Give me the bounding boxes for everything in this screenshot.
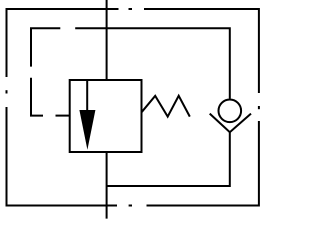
- enclosure border right dot: [258, 106, 260, 109]
- enclosure border top-left run (chain line): [7, 9, 119, 77]
- enclosure border bottom dot: [129, 205, 132, 207]
- enclosure border left dot: [6, 90, 8, 93]
- enclosure border bottom-right run: [147, 121, 259, 206]
- enclosure border top-right run: [144, 9, 259, 93]
- wire: main line bottom (valve to port 2): [106, 152, 108, 219]
- wire: check valve return line to main line: [107, 131, 230, 186]
- pilot line dash: top corner segment: [31, 28, 60, 66]
- valve V1 envelope: [70, 80, 142, 152]
- wire: main line top (port 1 to valve): [106, 0, 108, 80]
- enclosure border top dot: [129, 8, 133, 10]
- pilot line dash: into valve envelope: [56, 115, 70, 117]
- check valve CV1 seat (V): [210, 114, 251, 133]
- valve V1 poppet (filled triangle): [79, 110, 95, 150]
- valve V1 seat stem line: [86, 80, 88, 110]
- valve V1 spring: [142, 96, 190, 117]
- check valve CV1 ball (circle): [219, 100, 242, 123]
- enclosure border bottom-left run: [7, 107, 118, 206]
- wire: branch line to check valve (top): [75, 28, 230, 98]
- pilot line dash: left lower + bottom corner segment: [31, 78, 43, 116]
